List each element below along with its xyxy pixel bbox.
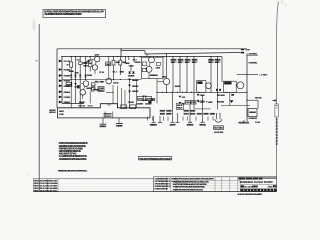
node marks on rail	[216, 89, 218, 91]
right margin tab box	[275, 104, 278, 117]
segment resistor labels row 2	[160, 113, 165, 115]
amplifier block B2	[223, 81, 236, 92]
transistor Q1	[92, 54, 100, 62]
revision table entries	[34, 180, 58, 193]
wire A3 right output drop	[156, 79, 158, 104]
vertical title text strip on right border	[276, 118, 278, 145]
diode D1	[70, 75, 72, 108]
title block column dividers	[167, 177, 240, 192]
resistor R1	[67, 57, 73, 80]
svg-text:ELECTRONIC DIGITAL ALARM CLOCK: ELECTRONIC DIGITAL ALARM CLOCK AND PSU	[173, 183, 207, 186]
wire column x136.5	[136, 80, 138, 108]
supply tap block +5V	[185, 101, 191, 105]
connector P2 line plug	[239, 120, 262, 124]
transistor Q8	[157, 77, 170, 93]
value label R15	[135, 57, 142, 64]
resistor R42 column	[178, 57, 184, 93]
svg-text:R8 47K: R8 47K	[66, 84, 72, 87]
transistor Q5	[149, 57, 155, 63]
svg-text:DRAWN BY RWS CHECKED BY DLH 6: DRAWN BY RWS CHECKED BY DLH 6-74	[173, 188, 204, 191]
value label C12	[113, 83, 119, 104]
notes text block	[59, 142, 88, 161]
company band	[241, 189, 277, 192]
svg-text:R34 150: R34 150	[190, 110, 196, 113]
svg-text:P1-3 SET: P1-3 SET	[64, 76, 71, 78]
U1 internal divider pin 11	[104, 112, 106, 118]
svg-text:10 11 12: 10 11 12	[78, 105, 85, 107]
size field dark blob	[241, 185, 244, 187]
transistor Q6	[146, 63, 152, 79]
connector J1 pin 7	[59, 96, 71, 99]
capacitor C15	[137, 97, 144, 106]
svg-text:MODULE: MODULE	[49, 112, 56, 114]
capacitor C3	[79, 57, 88, 80]
connector J1 pin 1	[59, 60, 71, 63]
wire input column bottom horizontal	[62, 103, 84, 105]
wire V+ bus	[62, 56, 222, 58]
T1 label box	[214, 126, 224, 134]
resistor R9	[92, 82, 105, 90]
svg-text:16V EL: 16V EL	[99, 90, 105, 92]
svg-text:SEG DP1: SEG DP1	[166, 114, 172, 116]
ground GND2	[116, 118, 123, 128]
resistor block R33	[177, 103, 184, 109]
title block right dividers	[240, 184, 276, 188]
svg-text:CATH 60: CATH 60	[210, 113, 216, 116]
pin label block P3	[121, 105, 127, 109]
svg-text:C12 .05: C12 .05	[113, 83, 119, 85]
capacitor C20 tap	[197, 94, 205, 97]
svg-text:10 KΩ: 10 KΩ	[171, 62, 175, 64]
value label C24	[125, 57, 131, 65]
svg-text:TO A2: TO A2	[255, 121, 261, 124]
svg-text:ALL SWITCHES SHOWN IN OFF POS: ALL SWITCHES SHOWN IN OFF POS	[59, 155, 87, 158]
svg-text:AND LINE AT 117 VAC.: AND LINE AT 117 VAC.	[59, 153, 77, 156]
svg-text:C15 .01: C15 .01	[138, 99, 144, 101]
svg-text:NOTE: VOLTAGES MEASURED WITH A: NOTE: VOLTAGES MEASURED WITH A	[59, 142, 88, 145]
right sheet border	[277, 2, 279, 177]
svg-text:PRINTED CIRCUIT BOARD SHOWN FR: PRINTED CIRCUIT BOARD SHOWN FROM FOIL	[58, 170, 88, 173]
resistor R44 column	[192, 57, 198, 110]
svg-text:+12 V: +12 V	[200, 102, 205, 104]
connector J1 pin 3	[59, 74, 71, 77]
test point TP1	[148, 100, 151, 103]
svg-text:R34 1K: R34 1K	[177, 107, 183, 110]
svg-text:D9 1N2071: D9 1N2071	[132, 80, 139, 82]
node R52 tap	[246, 100, 247, 101]
svg-text:R31 150: R31 150	[160, 111, 166, 113]
resistor R50 row	[217, 94, 234, 97]
svg-text:CHASSIS: CHASSIS	[116, 125, 123, 128]
resistor R20 inside A3	[142, 62, 147, 65]
oscillator module A3 box	[142, 57, 164, 78]
resistor R8	[66, 82, 72, 86]
diode D10a	[128, 85, 139, 88]
svg-text:R9 220K: R9 220K	[100, 82, 105, 84]
svg-text:13 14: 13 14	[88, 104, 94, 107]
capacitor C26 inside A3	[156, 62, 161, 69]
svg-text:DIG 1-2: DIG 1-2	[184, 114, 190, 116]
svg-text:DESCRIPTION AND DATE DRAWN C: DESCRIPTION AND DATE DRAWN CHECKED APPD	[173, 178, 214, 181]
svg-text:P1-6 ALM: P1-6 ALM	[64, 91, 71, 94]
svg-text:GROUND WITH NO SIGNAL IN: GROUND WITH NO SIGNAL IN	[59, 150, 81, 153]
node dots lower bus	[71, 79, 121, 80]
svg-text:SPEAKER: SPEAKER	[249, 111, 256, 114]
svg-text:10 KΩ: 10 KΩ	[178, 62, 182, 64]
svg-text:SCHEMATIC DIAGRAM OF MODEL GC-: SCHEMATIC DIAGRAM OF MODEL GC-1005 CLOCK	[173, 181, 209, 184]
svg-text:HIGH IMPEDANCE VTVM FROM THE: HIGH IMPEDANCE VTVM FROM THE	[59, 145, 86, 148]
svg-text:R52 220: R52 220	[255, 98, 262, 100]
ground GND3	[150, 116, 158, 127]
wire second supply rail	[145, 53, 241, 55]
svg-text:R12 4K: R12 4K	[116, 61, 121, 64]
wire column x117.5	[117, 86, 119, 108]
connector J1 pin 6	[59, 90, 71, 93]
svg-text:= 1 MEG: = 1 MEG	[259, 74, 267, 76]
svg-text:8 OHM .5W: 8 OHM .5W	[249, 118, 258, 120]
svg-text:Y1 XT: Y1 XT	[245, 50, 250, 52]
svg-text:R5 10K: R5 10K	[83, 62, 88, 64]
wire top frame rail	[57, 48, 247, 50]
svg-text:C7 .02: C7 .02	[99, 72, 105, 74]
svg-text:VALUES IN MICROFARADS UNLESS M: VALUES IN MICROFARADS UNLESS MARKED OTHE…	[44, 13, 82, 16]
svg-text:10 KΩ: 10 KΩ	[192, 62, 196, 64]
value label C25	[129, 57, 135, 72]
connector J1 pin 8	[59, 101, 71, 104]
svg-text:GND BUSS: GND BUSS	[150, 125, 158, 127]
diode D3	[79, 75, 81, 108]
wire left frame vertical	[56, 49, 58, 108]
speaker LS1	[248, 109, 257, 121]
connector J1 pin 4	[59, 79, 70, 82]
svg-text:C15 .1 50V: C15 .1 50V	[137, 103, 144, 105]
wire column x121.5	[121, 88, 123, 108]
wire rail2 tap	[146, 53, 147, 57]
svg-text:REV: REV	[269, 187, 274, 189]
boxed caution note	[138, 157, 171, 161]
scan smudge top-left edge	[32, 19, 35, 31]
wire audio out lower	[221, 105, 250, 107]
svg-text:Q1 2N: Q1 2N	[95, 54, 100, 56]
sheet number mark top-right	[281, 1, 284, 4]
svg-text:R23 100K 5%: R23 100K 5%	[150, 75, 158, 77]
ground GND5	[170, 92, 177, 126]
svg-text:THIS UNIT OPERATES AT LINE VOL: THIS UNIT OPERATES AT LINE VOLTAGE	[139, 157, 171, 160]
company logo band	[238, 177, 262, 179]
svg-text:R6 10K: R6 10K	[83, 65, 88, 67]
transistor Q12	[206, 83, 212, 89]
revision strip faint rules	[58, 184, 152, 189]
revision strip outline	[33, 179, 276, 192]
wire osc supply drop	[221, 57, 223, 82]
diode D8	[128, 72, 135, 78]
svg-text:AS VIEWED FROM THE REAR SIDE.: AS VIEWED FROM THE REAR SIDE.	[59, 158, 87, 161]
wire column x125	[124, 90, 126, 108]
resistor R41 column	[171, 57, 177, 93]
wire column C2	[75, 57, 80, 80]
svg-text:R33 150: R33 150	[184, 111, 190, 113]
svg-text:C16 .1 50V: C16 .1 50V	[145, 103, 152, 105]
junction dots on collector rail	[156, 92, 247, 93]
svg-text:R50 100K: R50 100K	[217, 95, 226, 97]
resistor R21 inside A3	[142, 68, 147, 71]
svg-text:DIG 5-6: DIG 5-6	[197, 114, 203, 116]
svg-text:GND LUG: GND LUG	[100, 126, 107, 128]
svg-text:P2 LINE PLUG: P2 LINE PLUG	[239, 122, 250, 124]
diode D10 row	[179, 96, 187, 99]
svg-text:R24 4.7K: R24 4.7K	[79, 101, 86, 104]
resistor R13	[119, 57, 127, 75]
svg-text:10 KΩ: 10 KΩ	[215, 62, 219, 64]
svg-text:Y1 CRYSTAL: Y1 CRYSTAL	[248, 62, 258, 65]
svg-text:C25 .05: C25 .05	[129, 66, 135, 68]
svg-text:REV E 05-09 CHG A01 5012: REV E 05-09 CHG A01 5012	[34, 189, 58, 192]
svg-text:R14 1K: R14 1K	[120, 71, 125, 74]
wire stub left low	[195, 108, 211, 110]
resistor R45 column	[208, 57, 214, 93]
resistor R46 column	[215, 57, 221, 110]
transistor Q13	[236, 82, 244, 89]
wire lower bus rail	[62, 79, 142, 81]
svg-text:R7 680: R7 680	[87, 75, 93, 77]
crystal Y1 plates	[241, 49, 244, 51]
page spine fold line	[38, 24, 40, 191]
faint corner mark bottom-left	[27, 172, 30, 177]
wire column R4	[86, 57, 91, 80]
wire divider output column	[166, 53, 167, 78]
svg-text:VARIABLE CLOCK RADIO: VARIABLE CLOCK RADIO	[240, 180, 273, 184]
resistor R5 network	[83, 57, 92, 72]
U1 internal divider pin 12	[112, 112, 114, 118]
connector J1 pin 5	[59, 84, 71, 87]
stray mark left margin	[36, 60, 38, 61]
segment resistor labels row 1	[160, 110, 165, 112]
transformer T1 winding	[215, 113, 222, 122]
svg-text:GND TP: GND TP	[170, 125, 177, 127]
wire crystal feed vertical	[246, 53, 248, 121]
svg-text:28 VDD: 28 VDD	[59, 111, 65, 113]
resistor R24 dark body	[77, 85, 80, 88]
svg-text:5 LINE CORD 89: 5 LINE CORD 89	[155, 188, 169, 190]
transistor Q4	[80, 86, 92, 99]
svg-text:DIG 3-4: DIG 3-4	[190, 113, 196, 116]
transistor Q2	[92, 62, 105, 74]
op-amp U1 clock chip outline	[57, 104, 150, 118]
svg-text:CATH 50: CATH 50	[203, 113, 209, 116]
net label GND	[206, 101, 213, 104]
svg-text:3.579 MHZ: 3.579 MHZ	[248, 54, 257, 56]
svg-text:117 VAC: 117 VAC	[214, 127, 223, 130]
wire emitter drop x90	[89, 92, 91, 104]
ground GND8	[199, 122, 206, 126]
diode D5 pair	[74, 83, 77, 104]
svg-text:CLOCK IC: CLOCK IC	[104, 116, 113, 118]
wire B2 ground drop	[229, 93, 231, 106]
svg-text:SCALE NONE DATE 6-12-74 SHEE: SCALE NONE DATE 6-12-74 SHEET 1	[237, 193, 263, 196]
note box border (top-left general note)	[43, 10, 106, 18]
svg-text:C14 100: C14 100	[128, 101, 135, 104]
junction dots on V+ bus	[61, 48, 218, 57]
transistor Q3	[82, 81, 99, 87]
wire segment stubs	[148, 117, 214, 121]
svg-text:1 OSC: 1 OSC	[59, 114, 65, 116]
svg-text:R32 150: R32 150	[166, 111, 172, 113]
parts list column text	[155, 177, 176, 190]
svg-text:P1-8 GND: P1-8 GND	[64, 102, 71, 104]
wire branch to A3	[121, 50, 145, 52]
svg-text:GND PCB: GND PCB	[187, 125, 194, 127]
wire 1MΩ feedback line	[237, 73, 258, 75]
wire column x134	[133, 56, 138, 62]
svg-text:10 KΩ: 10 KΩ	[185, 62, 189, 64]
svg-text:B1 OSC: B1 OSC	[197, 83, 203, 85]
resistor R12	[112, 57, 120, 80]
svg-text:D10 1N207: D10 1N207	[132, 86, 139, 88]
ground GND6	[176, 113, 180, 122]
net label +5V	[198, 101, 205, 104]
wire input column	[61, 57, 63, 104]
svg-text:SEG A-G: SEG A-G	[160, 113, 166, 116]
diode D9	[128, 79, 139, 108]
connector J1 pin 2	[59, 68, 71, 71]
svg-text:R6 2.2K: R6 2.2K	[69, 71, 75, 73]
svg-text:10 KΩ: 10 KΩ	[208, 62, 212, 64]
svg-text:D7 D8 1N91: D7 D8 1N91	[128, 76, 135, 78]
svg-text:60 HZ LINE: 60 HZ LINE	[214, 132, 224, 134]
title block outline	[154, 177, 277, 192]
svg-text:Q8 2N: Q8 2N	[162, 77, 167, 79]
diode D12 row	[217, 100, 233, 103]
ground GND1	[100, 118, 107, 128]
svg-text:A5 AUDIO: A5 AUDIO	[224, 82, 231, 85]
diode D11a	[128, 91, 139, 93]
resistor R10	[91, 88, 100, 92]
svg-text:P1-7 SNZ: P1-7 SNZ	[64, 97, 71, 99]
pin label block P4	[130, 105, 136, 109]
wire osc tap	[247, 54, 258, 56]
capacitor C21 tap	[197, 100, 205, 103]
diode D2	[74, 75, 76, 86]
svg-text:D11 1N207: D11 1N207	[132, 91, 139, 93]
ground GND4	[158, 116, 162, 123]
diode D7	[128, 72, 131, 74]
resistor R52	[247, 98, 262, 109]
svg-text:POINT INDICATED TO CHASSIS: POINT INDICATED TO CHASSIS	[59, 147, 83, 150]
svg-text:R15 10K: R15 10K	[135, 62, 142, 64]
diode D11 row	[179, 102, 187, 105]
svg-text:GND OSC: GND OSC	[199, 125, 206, 127]
svg-text:C24 .05: C24 .05	[125, 62, 131, 65]
resistor R43 column	[185, 57, 191, 93]
svg-text:C16 .01: C16 .01	[146, 99, 152, 101]
capacitor C16	[145, 97, 152, 106]
wire mid collector rail	[157, 91, 247, 93]
svg-text:D12 1N40: D12 1N40	[217, 100, 225, 103]
description rows	[173, 181, 209, 192]
diode D4	[84, 75, 86, 77]
fold arrow on right border	[272, 99, 276, 101]
title block row rules	[154, 180, 241, 188]
ground GND7	[187, 105, 194, 127]
transistor Q9	[106, 57, 114, 94]
wire B1 ground drop	[202, 95, 204, 122]
capacitor C6	[106, 62, 111, 66]
supply tap block GND	[191, 101, 196, 105]
svg-text:POWER SUPPLY CIRCUIT BOARD ASS: POWER SUPPLY CIRCUIT BOARD ASSY 85-143	[173, 186, 206, 189]
svg-text:B 595-1472-01 D: B 595-1472-01 D	[241, 186, 258, 189]
wire drop from frame to bus	[120, 49, 122, 57]
oscillator block B1	[197, 81, 206, 93]
capacitor C8	[98, 87, 104, 93]
